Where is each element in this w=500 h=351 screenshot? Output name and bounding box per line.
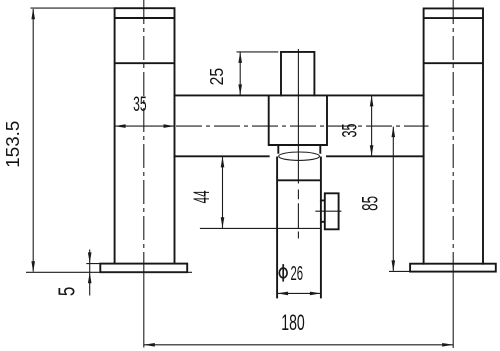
svg-text:153.5: 153.5 [3, 121, 23, 168]
svg-text:44: 44 [189, 190, 214, 203]
svg-text:85: 85 [358, 196, 383, 211]
svg-text:26: 26 [291, 262, 304, 285]
svg-text:180: 180 [281, 310, 305, 335]
svg-text:25: 25 [206, 68, 227, 86]
svg-text:35: 35 [337, 123, 361, 137]
svg-text:5: 5 [54, 287, 80, 297]
svg-text:35: 35 [133, 93, 147, 116]
